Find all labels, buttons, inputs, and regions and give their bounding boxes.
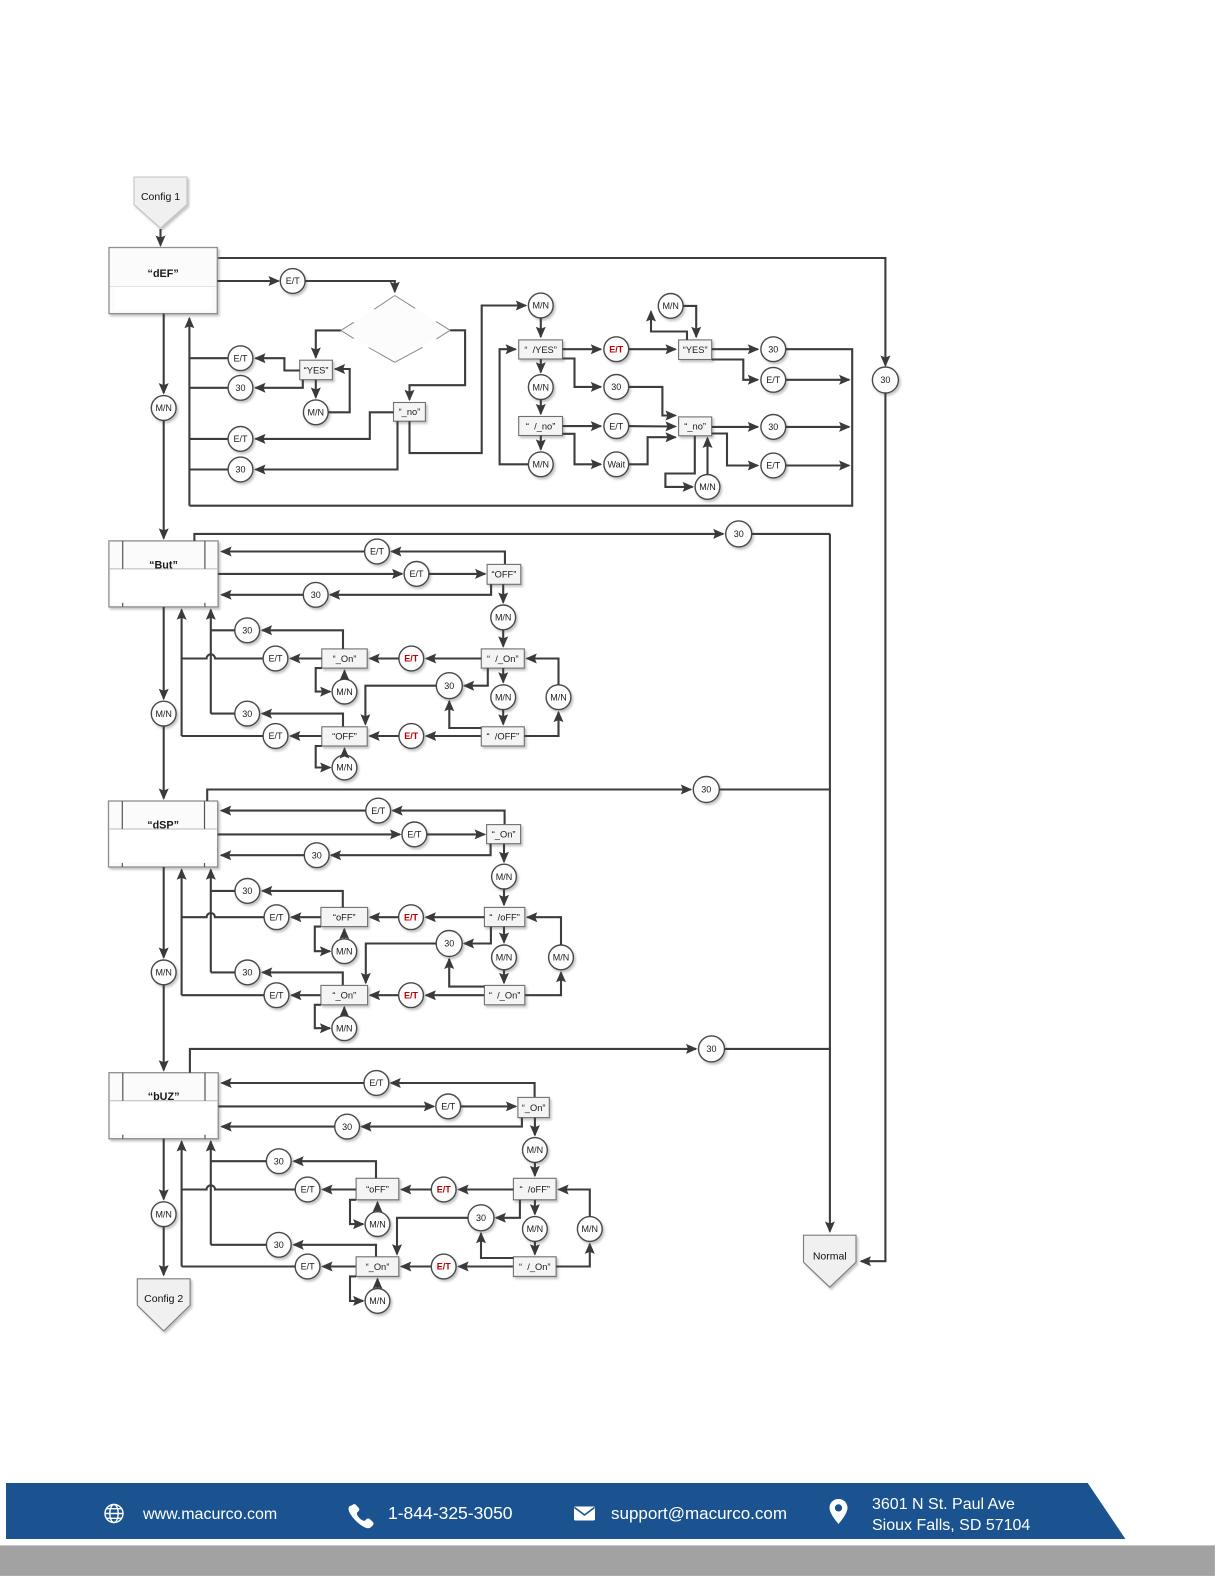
node E/T b sec4 [295, 1254, 320, 1279]
icon globe [105, 1505, 123, 1523]
node E/T b sec2 [263, 724, 288, 749]
wire sec3 /boxB -> 30 mid [449, 959, 484, 987]
svg-text:E/T: E/T [268, 654, 283, 664]
node 30 after YES2 [761, 337, 786, 362]
wire sec4 box -> M/N spine [163, 1139, 165, 1200]
wire E/T -> _no2 [629, 425, 676, 427]
svg-text:M/N: M/N [699, 482, 716, 492]
wire sec3 collector v2 -> box [181, 870, 183, 995]
svg-text:Normal: Normal [813, 1251, 847, 1263]
wire YES2 -> M/N loop [651, 312, 687, 340]
wire sec3 box -> E/T r2 [218, 833, 400, 835]
terminator Config 2 [137, 1279, 190, 1331]
wire sec4 30 mid -> boxB top [397, 1218, 468, 1255]
wire sec2 r2box -> M/N c1 [502, 584, 504, 602]
wire sec3 boxA top -> 30 a [262, 891, 343, 908]
wire sec4 boxA top -> 30 a [294, 1161, 376, 1178]
svg-text:30: 30 [235, 383, 245, 393]
svg-text:“OFF”: “OFF” [332, 732, 357, 742]
svg-text:E/T: E/T [301, 1262, 316, 1272]
node 30 b sec4 [266, 1232, 291, 1257]
svg-text:E/T: E/T [268, 731, 283, 741]
svg-text:M/N: M/N [336, 1023, 353, 1033]
terminator Config 1 [134, 177, 187, 228]
wire sec2 E/T red a -> boxA [370, 657, 399, 659]
node 30 r3 sec2 [303, 582, 328, 607]
state box OFF r2 sec2 [487, 564, 521, 584]
node E/T after YES2 [761, 367, 786, 392]
wire sec4 boxB top -> 30 b [294, 1245, 376, 1257]
wire sec4 E/T red a -> boxA [401, 1188, 431, 1190]
svg-text:M/N: M/N [527, 1145, 544, 1155]
svg-text:3601 N St. Paul Ave: 3601 N St. Paul Ave [872, 1496, 1015, 1513]
wire dEF -> M/N spine [163, 314, 165, 394]
node E/T r1 sec2 [365, 539, 390, 564]
wire YES -> 30 a [256, 380, 303, 388]
svg-text:M/N: M/N [369, 1219, 386, 1229]
wire sec2 M/N c2 -> /boxB [502, 710, 504, 725]
wire sec4 boxB -> E/T b [323, 1265, 357, 1267]
wire sec3 r2box -> E/T r1 [393, 811, 505, 825]
node M/N right sec2 [546, 685, 571, 710]
svg-text:“ /_no”: “ /_no” [526, 421, 555, 431]
wire sec3 boxA -> M/N a [315, 927, 330, 952]
node M/N spine 1 [151, 396, 176, 421]
svg-text:M/N: M/N [553, 953, 570, 963]
wire sec4 E/T red b -> boxB [401, 1265, 431, 1267]
wire sec4 boxB -> M/N b [350, 1276, 363, 1301]
wire _no -> 30 b [256, 421, 398, 469]
wire sec3 /boxA -> 30 mid [464, 927, 491, 944]
svg-text:M/N: M/N [336, 763, 353, 773]
node M/N between /YES /_no [528, 375, 553, 400]
svg-text:www.macurco.com: www.macurco.com [142, 1506, 277, 1523]
wire sec4 M/N right -> /boxA [559, 1190, 590, 1217]
wire collector branch E/T a [189, 357, 228, 359]
svg-text:“_On”: “_On” [333, 654, 357, 664]
svg-text:M/N: M/N [533, 382, 550, 392]
wire sec4 r2box -> 30 r3 [362, 1118, 522, 1127]
wire _no2 -> M/N bottom [665, 436, 694, 487]
svg-text:1-844-325-3050: 1-844-325-3050 [388, 1503, 513, 1523]
svg-text:30: 30 [274, 1240, 284, 1250]
svg-text:30: 30 [880, 375, 890, 385]
wire sec3 30 mid -> boxB top [366, 944, 436, 983]
state box /_On sec2 [481, 649, 524, 668]
wire /YES branch -> 30 mid [563, 359, 601, 387]
wire sec2 30 a -> collector [211, 629, 235, 631]
svg-text:M/N: M/N [155, 403, 172, 413]
wire sec2 boxA -> E/T a [290, 657, 321, 659]
wire sec3 E/T red a -> boxA [370, 916, 399, 918]
wire sec4 M/N a -> boxA [376, 1202, 378, 1211]
wire right rail down to Normal [861, 393, 885, 1261]
svg-text:“dEF”: “dEF” [148, 268, 179, 280]
wire sec2 boxB top -> 30 b [262, 714, 343, 727]
wire /YES -> E/T red [563, 348, 601, 350]
node M/N spine sec4 [151, 1202, 176, 1227]
svg-text:E/T: E/T [233, 434, 248, 444]
node M/N before /YES [528, 293, 553, 318]
node E/T red a sec3 [399, 905, 424, 930]
node 30 b sec2 [235, 701, 260, 726]
wire sec2 r2box -> E/T r1 [391, 552, 505, 565]
decision diamond (partially hidden) [341, 296, 450, 363]
wire sec4 /boxB -> M/N right [556, 1244, 590, 1267]
node E/T red b sec3 [399, 983, 424, 1008]
state box /_On sec3 [484, 985, 524, 1004]
wire sec4 M/N spine down [163, 1227, 165, 1275]
svg-text:“ /YES”: “ /YES” [524, 345, 557, 355]
svg-text:E/T: E/T [269, 990, 284, 1000]
wire sec4 r2box -> M/N c1 [534, 1118, 536, 1136]
wire sec4 box top -> 30 timeout [190, 1049, 696, 1073]
node M/N under YES [303, 400, 328, 425]
wire sec2 M/N c1 -> /boxA [502, 630, 504, 647]
wire sec4 E/T b -> collector [182, 1265, 296, 1267]
state box /YES [519, 340, 563, 359]
wire sec4 box -> E/T r2 [218, 1105, 434, 1107]
svg-text:M/N: M/N [495, 613, 512, 623]
icon phone [349, 1504, 374, 1528]
svg-text:E/T: E/T [233, 353, 248, 363]
wire sec2 E/T r2 -> r2box [429, 573, 485, 575]
svg-text:“_On”: “_On” [522, 1103, 546, 1113]
wire sec4 E/T r2 -> r2box [461, 1105, 516, 1107]
svg-text:M/N: M/N [496, 872, 513, 882]
svg-text:E/T: E/T [409, 569, 424, 579]
wire sec4 collector v1 -> box [210, 1142, 212, 1245]
wire sec3 boxA -> E/T a [291, 916, 321, 918]
svg-text:Config 1: Config 1 [141, 191, 180, 203]
terminator Normal [804, 1235, 857, 1287]
wire YES -> E/T a [256, 358, 300, 370]
wire 30 -> return rail [189, 349, 852, 506]
wire sec4 30 r3 -> box [222, 1126, 335, 1128]
wire sec2 boxB -> M/N b [316, 746, 330, 768]
svg-text:E/T: E/T [404, 654, 419, 664]
svg-text:30: 30 [342, 1122, 352, 1132]
wire sec2 E/T red b -> boxB [370, 735, 399, 737]
svg-text:30: 30 [242, 709, 252, 719]
node 30 mid right [604, 375, 629, 400]
wire collector branch 30 b [189, 468, 228, 470]
wire sec3 /boxB -> M/N right [525, 972, 561, 995]
svg-text:M/N: M/N [155, 709, 172, 719]
node E/T r1 sec3 [366, 798, 391, 823]
wire sec2 collector v2 -> box [181, 610, 183, 736]
svg-text:M/N: M/N [308, 408, 325, 418]
wire sec3 /boxB -> E/T red b [426, 994, 485, 996]
svg-text:M/N: M/N [336, 946, 353, 956]
wire sec3 r2box -> 30 r3 [331, 844, 491, 856]
process box dEF [109, 248, 217, 314]
svg-text:“_On”: “_On” [492, 829, 516, 839]
node 30 timeout on right rail [872, 367, 898, 393]
node 30 timeout sec3 [693, 777, 719, 803]
node E/T b sec3 [264, 983, 289, 1008]
node E/T row a [228, 346, 253, 371]
svg-text:support@macurco.com: support@macurco.com [611, 1504, 787, 1523]
wire E/T merge into return rail [786, 379, 849, 381]
svg-text:E/T: E/T [441, 1102, 456, 1112]
svg-text:M/N: M/N [155, 968, 172, 978]
wire return collector up into dEF [188, 318, 190, 506]
icon location pin [830, 1499, 848, 1524]
node M/N c2 sec2 [491, 685, 516, 710]
wire sec3 r2box -> M/N c1 [503, 844, 505, 862]
wire sec3 M/N right -> /boxA [527, 917, 561, 945]
wire sec3 boxB -> E/T b [291, 994, 321, 996]
svg-text:Sioux Falls, SD 57104: Sioux Falls, SD 57104 [872, 1517, 1030, 1534]
wire YES2 -> E/T branch [712, 360, 758, 380]
wire timeout rail B into Normal [829, 534, 831, 1232]
node E/T r2 sec2 [404, 562, 429, 587]
node M/N c1 sec4 [523, 1138, 548, 1163]
node 30 right row [761, 415, 786, 440]
wire M/N -> /YES loop [500, 349, 529, 464]
wire M/N -> /YES box [540, 318, 542, 337]
node E/T after dEF [280, 269, 305, 294]
wire sec2 M/N right -> /boxA [527, 659, 559, 685]
svg-text:E/T: E/T [407, 830, 422, 840]
svg-text:M/N: M/N [533, 301, 550, 311]
wire E/T merge return rail 2 [786, 464, 849, 466]
wire M/N -> /_no [540, 400, 542, 414]
svg-text:E/T: E/T [766, 375, 781, 385]
node M/N c2 sec4 [523, 1217, 548, 1242]
wire sec3 collector v1 -> box [210, 870, 212, 973]
svg-text:30: 30 [611, 382, 621, 392]
svg-text:“ /_On”: “ /_On” [519, 1262, 551, 1272]
svg-text:30: 30 [768, 422, 778, 432]
wire /_no -> M/N low [540, 436, 542, 450]
wire sec2 collector v1 -> box [210, 610, 212, 714]
svg-text:M/N: M/N [533, 460, 550, 470]
svg-text:“ /oFF”: “ /oFF” [520, 1184, 550, 1194]
wire sec2 M/N a -> boxA [343, 671, 345, 680]
wire sec3 box top -> 30 timeout [207, 790, 691, 802]
svg-text:“bUZ”: “bUZ” [148, 1091, 180, 1103]
node 30 mid sec4 [468, 1205, 494, 1231]
node E/T mid right [604, 414, 629, 439]
process box dSP [109, 801, 218, 867]
node E/T a sec3 [264, 905, 289, 930]
wire E/T -> decision diamond [305, 281, 395, 292]
wire sec3 boxB -> M/N b [315, 1005, 330, 1028]
wire sec3 E/T r2 -> r2box [427, 833, 485, 835]
svg-text:Wait: Wait [607, 460, 625, 470]
wire sec3 box -> M/N spine [163, 867, 165, 958]
wire _no2 -> 30 r [712, 426, 758, 428]
state box /_On sec4 [513, 1257, 556, 1277]
svg-text:M/N: M/N [550, 692, 567, 702]
node 30 a sec4 [266, 1149, 291, 1174]
node 30 r3 sec4 [335, 1114, 360, 1139]
svg-text:“_no”: “_no” [399, 407, 421, 417]
svg-text:30: 30 [274, 1156, 284, 1166]
wire diamond -> YES box [316, 330, 341, 357]
node M/N right sec3 [549, 945, 574, 970]
svg-text:“_On”: “_On” [332, 990, 356, 1000]
wire sec2 E/T a -> collector [182, 654, 264, 658]
wire sec2 r2box -> 30 r3 [330, 584, 491, 595]
wire sec4 /boxA -> E/T red a [459, 1188, 514, 1190]
state box YES 2 [679, 340, 712, 360]
svg-text:E/T: E/T [609, 421, 624, 431]
svg-text:30: 30 [768, 344, 778, 354]
wire sec4 boxA -> E/T a [323, 1188, 357, 1190]
wire sec2 30 -> rail B [752, 533, 830, 535]
svg-text:E/T: E/T [370, 547, 385, 557]
wire sec2 box -> E/T r2 [218, 573, 402, 575]
node M/N spine sec2 [151, 701, 176, 726]
wire sec3 30 -> rail B [719, 788, 830, 790]
svg-text:E/T: E/T [437, 1185, 452, 1195]
node E/T red a sec4 [431, 1177, 456, 1202]
wire sec4 E/T r1 -> box [222, 1082, 364, 1084]
node 30 a sec2 [235, 618, 260, 643]
svg-text:30: 30 [706, 1044, 716, 1054]
svg-text:M/N: M/N [527, 1224, 544, 1234]
svg-text:30: 30 [242, 886, 252, 896]
wire /YES -> M/N mid [540, 359, 542, 372]
wire sec4 30 a -> collector [211, 1160, 267, 1162]
svg-text:E/T: E/T [609, 344, 624, 354]
svg-text:“_On”: “_On” [366, 1262, 390, 1272]
wire sec2 boxB -> E/T b [290, 735, 321, 737]
wire sec4 collector v2 -> box [181, 1142, 183, 1267]
wire YES -> M/N [315, 380, 317, 398]
node E/T red 1 [604, 337, 629, 362]
wire collector branch E/T b [189, 438, 228, 440]
svg-text:30: 30 [444, 681, 454, 691]
svg-text:E/T: E/T [404, 731, 419, 741]
footer blue banner [6, 1483, 1125, 1539]
wire M/N -> _no2 [706, 438, 708, 474]
node E/T a sec4 [295, 1177, 320, 1202]
svg-text:“YES”: “YES” [683, 345, 708, 355]
svg-text:30: 30 [734, 529, 744, 539]
wire sec4 /boxA -> M/N c2 [534, 1200, 536, 1214]
wire sec3 M/N a -> boxA [343, 929, 345, 939]
node M/N b sec3 [332, 1016, 357, 1041]
state box YES [300, 360, 333, 380]
wire 30 merge return rail [786, 426, 849, 428]
wire sec2 box top -> 30 timeout [194, 534, 723, 541]
wire sec4 /boxA -> 30 mid [496, 1200, 520, 1218]
wire sec3 30 r3 -> box [221, 854, 304, 856]
node E/T a sec2 [263, 646, 288, 671]
node M/N right sec4 [577, 1217, 602, 1242]
node M/N c1 sec3 [492, 864, 517, 889]
svg-text:M/N: M/N [369, 1296, 386, 1306]
node E/T row b [228, 427, 253, 452]
wire sec2 M/N spine down [163, 726, 165, 799]
wire sec3 M/N b -> boxB [343, 1007, 345, 1016]
wire sec3 M/N spine down [163, 985, 165, 1070]
svg-text:E/T: E/T [301, 1185, 316, 1195]
wire /_no -> E/T mid [563, 425, 601, 427]
icon envelope [574, 1507, 595, 1521]
node 30 row b [228, 457, 253, 482]
state box /_no [519, 417, 563, 436]
svg-text:30: 30 [476, 1213, 486, 1223]
node E/T r2 sec4 [436, 1094, 461, 1119]
wire _no2 -> E/T r branch [712, 434, 758, 466]
node E/T right row [761, 453, 786, 478]
wire Wait -> _no2 [629, 437, 676, 464]
wire YES2 -> 30 [712, 348, 758, 350]
svg-text:E/T: E/T [404, 990, 419, 1000]
state box /oFF sec3 [484, 907, 524, 926]
wire sec2 30 r3 -> box [222, 594, 304, 596]
svg-text:E/T: E/T [766, 461, 781, 471]
wire sec3 E/T r1 -> box [221, 810, 366, 812]
node M/N c2 sec3 [492, 945, 517, 970]
wire sec2 /boxB -> E/T red b [426, 735, 481, 737]
state box OFF b sec2 [322, 727, 367, 746]
node M/N spine sec3 [151, 960, 176, 985]
node M/N a sec3 [332, 939, 357, 964]
wire sec4 M/N b -> boxB [376, 1279, 378, 1289]
node E/T red b sec4 [431, 1254, 456, 1279]
svg-text:M/N: M/N [582, 1224, 599, 1234]
wire M/N -> YES [328, 369, 350, 412]
wire 30 -> _no2 top [629, 387, 676, 416]
wire sec4 30 -> rail B [725, 1048, 830, 1050]
svg-text:E/T: E/T [269, 912, 284, 922]
svg-text:E/T: E/T [286, 276, 301, 286]
svg-text:30: 30 [311, 590, 321, 600]
wire sec3 E/T b -> collector [182, 994, 265, 996]
svg-text:30: 30 [444, 939, 454, 949]
wire sec2 /boxB -> 30 mid [449, 701, 481, 728]
svg-text:E/T: E/T [371, 806, 386, 816]
node M/N b sec2 [332, 755, 357, 780]
node 30 timeout sec4 [699, 1036, 725, 1062]
svg-text:“OFF”: “OFF” [492, 570, 517, 580]
wire sec3 E/T a -> collector [182, 913, 265, 917]
svg-text:“oFF”: “oFF” [366, 1184, 389, 1194]
node 30 mid sec3 [436, 931, 462, 957]
svg-text:“ /oFF”: “ /oFF” [489, 912, 519, 922]
state box /oFF sec4 [513, 1178, 556, 1200]
wire sec2 E/T b -> collector [182, 735, 264, 737]
wire sec2 /boxB -> M/N right [524, 712, 558, 736]
state box _no 2 [679, 417, 712, 436]
wire sec3 /boxA -> M/N c2 [503, 927, 505, 943]
wire sec2 30 b -> collector [211, 713, 235, 715]
svg-text:“_no”: “_no” [684, 422, 706, 432]
node M/N a sec4 [365, 1212, 390, 1237]
state box _On b sec3 [321, 985, 368, 1004]
svg-text:“ /_On”: “ /_On” [489, 990, 521, 1000]
wire sec4 boxA -> M/N a [350, 1200, 363, 1224]
node E/T red a sec2 [399, 646, 424, 671]
wire diamond -> _no box [410, 330, 466, 400]
svg-text:E/T: E/T [437, 1262, 452, 1272]
state box _On a sec2 [322, 649, 367, 668]
svg-text:E/T: E/T [369, 1078, 384, 1088]
wire _no -> E/T b [256, 412, 394, 439]
svg-text:“YES”: “YES” [304, 365, 329, 375]
wire sec3 30 a -> collector [211, 890, 235, 892]
wire sec2 M/N b -> boxB [343, 749, 345, 756]
node Wait [604, 452, 629, 477]
wire sec2 boxA -> M/N a [316, 668, 330, 692]
state box _no [394, 403, 426, 422]
